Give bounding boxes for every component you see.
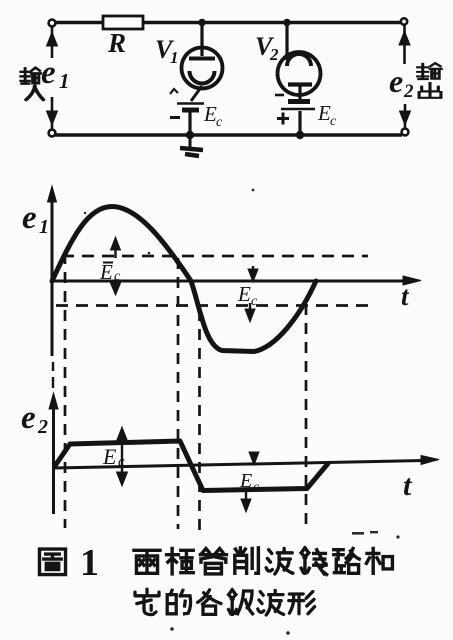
svg-text:E: E bbox=[203, 102, 217, 126]
tube V1 envelope bbox=[182, 48, 223, 89]
svg-text:t: t bbox=[403, 469, 413, 502]
svg-text:t: t bbox=[401, 281, 410, 311]
wire V2 anode lead bbox=[298, 86, 301, 99]
caption 兩 bbox=[134, 550, 160, 573]
wire V2 cathode lead bbox=[285, 23, 288, 61]
wire bottom bus bbox=[55, 133, 402, 136]
label Ec (mid right) bbox=[237, 282, 258, 309]
label 出 (output) bbox=[419, 83, 441, 98]
battery B1 plus mark bbox=[170, 89, 178, 94]
svg-text:c: c bbox=[251, 294, 258, 309]
caption 波 2 bbox=[258, 590, 284, 615]
svg-text:E: E bbox=[237, 282, 251, 306]
caption 各 bbox=[198, 590, 221, 615]
label 輸 (output) bbox=[418, 63, 442, 79]
arrow Ec (bottom right) bbox=[241, 452, 259, 512]
sine wave e1 bbox=[52, 207, 316, 352]
svg-text:c: c bbox=[216, 115, 223, 130]
caption 波 bbox=[266, 548, 293, 573]
caption 和 bbox=[366, 548, 392, 573]
dashed marker x1 bbox=[64, 253, 67, 528]
label Ec (bottom left) bbox=[102, 444, 125, 470]
label e1 (input) bbox=[41, 55, 70, 93]
caption 級 bbox=[229, 590, 253, 615]
label 入 (input) bbox=[26, 86, 43, 100]
axis e2 vertical bbox=[49, 362, 58, 514]
wire B2 to bus bbox=[298, 111, 301, 134]
caption 形 bbox=[289, 592, 315, 614]
input terminal top bbox=[49, 20, 56, 27]
caption 管 bbox=[200, 548, 226, 573]
svg-text:c: c bbox=[330, 114, 337, 129]
axis e1 vertical bbox=[48, 186, 57, 356]
svg-text:E: E bbox=[317, 101, 331, 125]
svg-text:E: E bbox=[102, 444, 117, 469]
arrow Ec upper (mid) bbox=[111, 237, 121, 295]
node junction V2 top bbox=[283, 19, 291, 27]
caption 圖 bbox=[39, 549, 65, 574]
caption 削 bbox=[235, 548, 259, 573]
node junction bottom V1 bbox=[186, 131, 194, 139]
svg-text:e: e bbox=[21, 400, 36, 436]
svg-text:E: E bbox=[239, 470, 252, 492]
svg-text:e: e bbox=[41, 55, 56, 91]
label Ec (bottom right) bbox=[239, 470, 260, 495]
caption 它 bbox=[135, 589, 159, 614]
svg-text:c: c bbox=[118, 454, 125, 470]
wire top bus bbox=[55, 21, 401, 24]
node junction V1 top bbox=[198, 19, 206, 27]
battery B2 plus mark bbox=[277, 113, 289, 125]
caption 極 bbox=[167, 548, 194, 573]
waveform e2 clipped bbox=[55, 441, 329, 491]
wire V1 cathode lead bbox=[191, 86, 202, 101]
battery B1 long plate bbox=[177, 102, 204, 105]
svg-text:2: 2 bbox=[37, 416, 48, 438]
wire B1 to bus bbox=[188, 112, 191, 134]
battery B2 minus mark bbox=[275, 94, 284, 97]
caption 的 bbox=[167, 590, 190, 613]
tube V2 anode plate bbox=[288, 82, 312, 86]
wire V1 anode lead bbox=[200, 23, 203, 57]
label Ec (B2) bbox=[317, 101, 337, 129]
arrow Ec (bottom left) bbox=[117, 427, 128, 486]
svg-text:1: 1 bbox=[59, 69, 70, 93]
ground bbox=[180, 137, 203, 156]
label Ec (mid left) bbox=[99, 260, 121, 284]
svg-text:e: e bbox=[22, 200, 37, 236]
label V2 bbox=[255, 32, 279, 64]
svg-text:e: e bbox=[389, 63, 403, 99]
wire input left with arrows bbox=[47, 27, 58, 129]
svg-text:R: R bbox=[107, 28, 126, 58]
dashed level -Ec bbox=[56, 304, 370, 307]
output terminal top bbox=[401, 18, 407, 24]
label e1 axis bbox=[22, 200, 49, 238]
label 輸 (input) bbox=[21, 68, 41, 84]
wire output right with arrows bbox=[399, 25, 411, 128]
label e2 axis bbox=[21, 400, 48, 438]
caption 路 bbox=[334, 548, 359, 573]
svg-text:E: E bbox=[99, 260, 113, 284]
resistor R bbox=[103, 16, 143, 58]
dashed marker x3 bbox=[198, 310, 201, 530]
svg-text:2: 2 bbox=[269, 45, 279, 64]
arrow Ec lower (mid) bbox=[245, 266, 258, 322]
battery B1 short plate bbox=[182, 108, 199, 113]
label e2 (output) bbox=[389, 63, 414, 102]
tube V1 anode plate bbox=[189, 57, 215, 61]
svg-text:1: 1 bbox=[80, 542, 99, 584]
axis t1 horizontal bbox=[52, 276, 421, 285]
battery B1 minus mark bbox=[170, 116, 180, 119]
caption 綫 bbox=[301, 548, 326, 575]
tube V2 cathode bbox=[287, 54, 311, 66]
label V1 bbox=[155, 35, 179, 67]
svg-text:c: c bbox=[253, 480, 260, 495]
output terminal bottom bbox=[402, 129, 409, 136]
dashed level +Ec bbox=[62, 255, 368, 258]
label Ec (B1) bbox=[203, 102, 223, 130]
node junction bottom V2 bbox=[296, 131, 304, 139]
svg-text:1: 1 bbox=[39, 216, 49, 238]
svg-text:c: c bbox=[114, 269, 121, 284]
battery B2 long plate bbox=[281, 108, 315, 111]
dashed marker x2 bbox=[177, 258, 180, 529]
svg-text:1: 1 bbox=[170, 48, 179, 67]
svg-text:2: 2 bbox=[403, 81, 414, 102]
tube V2 envelope bbox=[278, 52, 321, 95]
axis t2 horizontal bbox=[54, 456, 440, 469]
input terminal bottom bbox=[49, 130, 56, 137]
dashed marker x4 bbox=[305, 304, 308, 530]
tube V1 cathode bbox=[190, 71, 215, 84]
battery B2 short plate bbox=[288, 99, 310, 104]
speckle marks bbox=[84, 189, 400, 635]
